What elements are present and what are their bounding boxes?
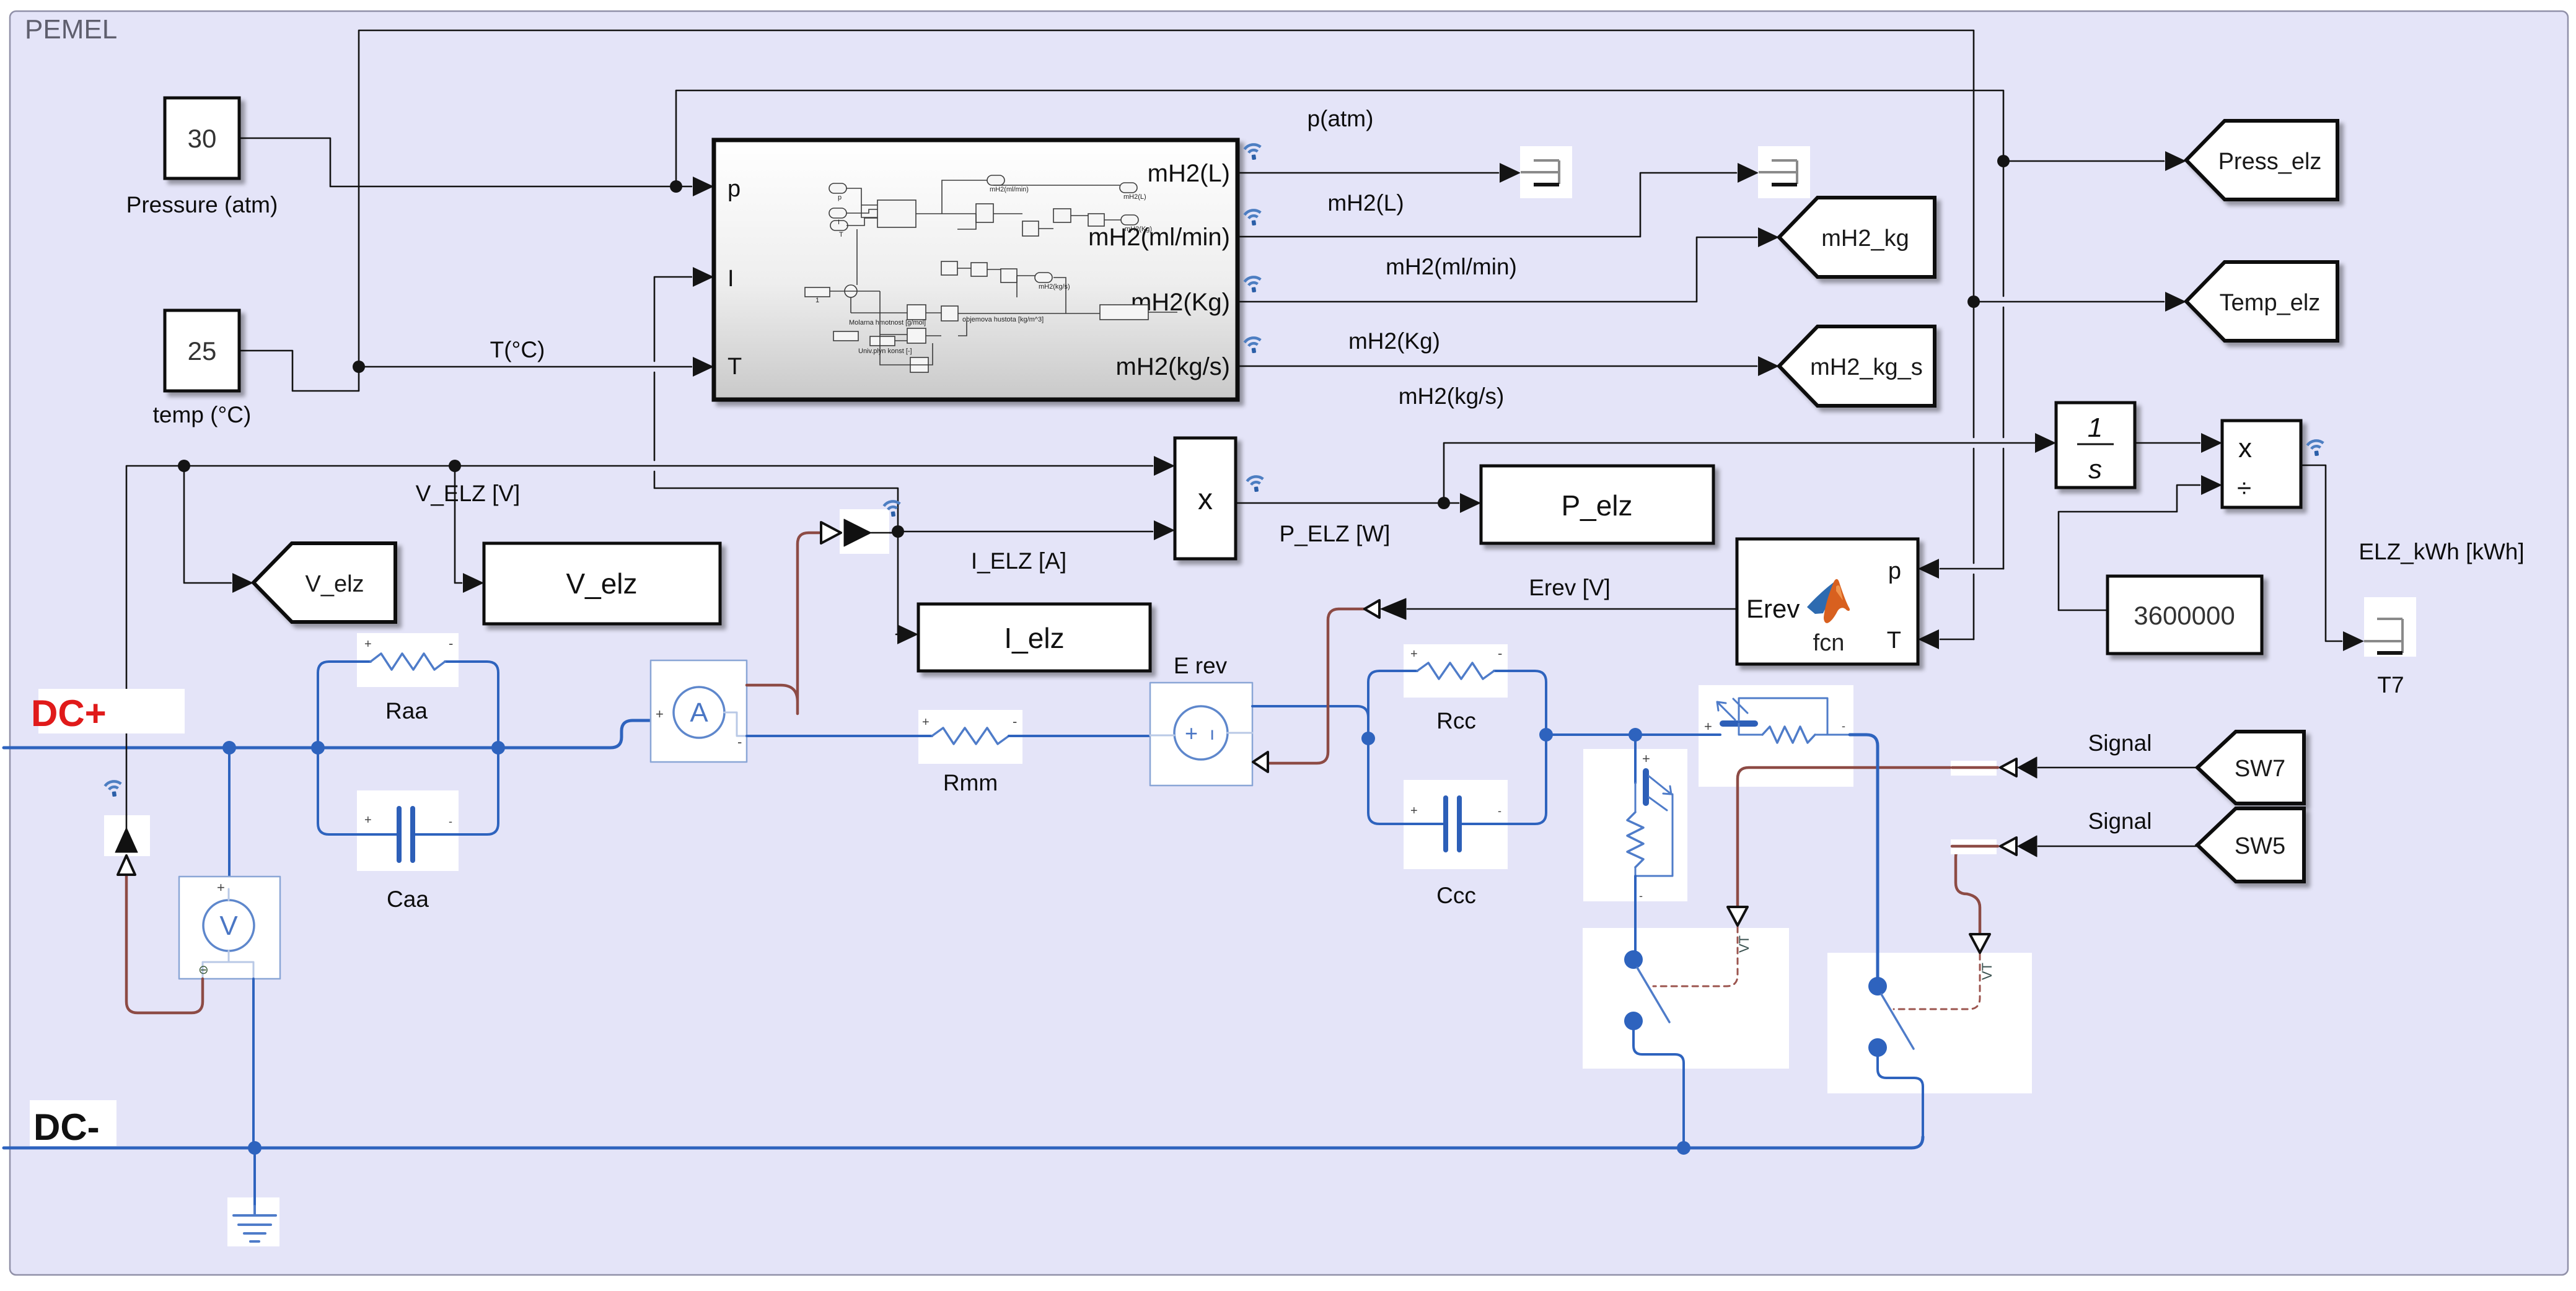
constant 30 (Pressure) [165,98,239,178]
switch SW2 [1868,977,1923,1137]
svg-text:ı: ı [1210,724,1215,744]
svg-text:+: + [364,813,372,827]
wire blue restroke over SW7 signal [1876,755,1879,782]
svg-text:mH2(Kg): mH2(Kg) [1348,328,1440,354]
port arrow I_elz display [897,624,918,644]
svg-text:-: - [1842,720,1845,732]
ground [234,1206,276,1241]
svg-text:-: - [1013,714,1017,729]
port arrow divide div [2201,475,2222,495]
constant 25 (temp) [165,310,239,391]
wire bus to voltmeter [228,748,231,877]
port arrow subsystem p [693,177,714,196]
svg-text:Molarna hmotnost [g/mol]: Molarna hmotnost [g/mol] [849,319,926,326]
svg-text:A: A [690,698,708,728]
svg-text:mH2(L): mH2(L) [1123,193,1146,201]
svg-text:25: 25 [188,336,217,365]
wifi logging badge [2307,440,2325,457]
wire I_ELZ to product [898,531,1153,533]
wire DC- bus [4,1137,1923,1148]
port arrow mH2_kg [1758,227,1779,247]
svg-text:x: x [2238,433,2252,463]
svg-text:mH2(kg/s): mH2(kg/s) [1116,353,1230,380]
terminator T7 [2364,597,2416,657]
port arrow integrator [2035,433,2056,453]
display block V_elz [484,543,720,624]
transistor GTO2 (with series resistor) [1627,735,1673,902]
wifi logging badge [1244,144,1262,161]
MATLAB function Erev fcn [1737,539,1918,664]
wire ELZ_kWh to T7 [2301,465,2342,641]
port arrow P_elz display [1460,493,1481,513]
svg-text:3600000: 3600000 [2134,601,2235,630]
port arrow divide x [2201,433,2222,453]
wire T to Temp_elz [1974,301,2164,303]
resistor Rcc [1417,663,1494,679]
wifi logging badge [1247,476,1265,493]
voltmeter block [179,877,280,979]
wire p to Erev fcn [1940,568,2003,570]
subsystem inner miniature [805,175,1177,372]
wire Erev converter to E rev source control [1267,609,1364,763]
svg-text:-: - [449,815,452,828]
port arrow Erev fcn T [1918,629,1939,649]
wire P_ELZ to integrator [1444,443,2036,503]
svg-text:V: V [219,911,238,941]
svg-text:x: x [1198,483,1213,516]
from tag SW5 [2197,808,2304,882]
port arrow Erev fcn p [1918,559,1939,579]
svg-text:SW5: SW5 [2235,833,2285,859]
node V_ELZ to display [449,460,461,472]
svg-text:mH2(ml/min): mH2(ml/min) [1386,254,1517,279]
goto tag Temp_elz [2186,262,2337,341]
svg-text:I: I [728,266,734,292]
port arrow subsystem T [693,357,714,377]
svg-text:Signal: Signal [2088,730,2152,756]
goto tag mH2_kg_s [1779,326,1935,406]
svg-text:Pressure (atm): Pressure (atm) [126,192,278,217]
svg-text:VT: VT [1736,935,1752,953]
svg-text:T7: T7 [2377,672,2404,698]
wire const25 to subsystem T [239,30,1974,639]
wire Ccc branch [1368,735,1546,824]
node p to Press_elz [1997,155,2010,167]
port VT open triangle (GTO1 gate) [1728,907,1747,926]
svg-text:mH2_kg_s: mH2_kg_s [1810,354,1923,380]
svg-text:E rev: E rev [1174,653,1228,678]
node DC+ / Raa-Caa left [311,741,325,755]
wire const 3600000 to divide [2059,485,2200,610]
node T branch [353,361,365,373]
resistor Rmm [932,728,1009,744]
wifi logging badge [1244,276,1262,294]
wire ammeter I measurement to converter [747,533,819,714]
svg-text:mH2(ml/min): mH2(ml/min) [1088,224,1230,251]
goto tag Press_elz [2186,121,2337,199]
svg-text:Ccc: Ccc [1436,883,1476,908]
wire P_ELZ [1236,502,1459,504]
resistor Raa [371,654,445,670]
svg-text:+: + [922,716,930,729]
svg-text:s: s [2088,454,2102,484]
svg-text:objemova hustota [kg/m^3]: objemova hustota [kg/m^3] [962,316,1044,323]
wire voltmeter V measurement to converter [126,876,203,1013]
svg-text:-: - [737,734,742,750]
svg-text:P_elz: P_elz [1561,489,1632,522]
svg-text:-: - [449,636,453,651]
svg-text:V_ELZ [V]: V_ELZ [V] [416,481,521,506]
wire Rmm to E rev [1009,735,1150,737]
wire V to V_elz display [455,466,462,583]
svg-text:+: + [1410,804,1418,818]
port arrow terminator1 [1500,163,1521,183]
wifi logging badge [105,781,123,798]
wire GTO1 to switch SW2 branch [1850,735,1878,986]
capacitor Caa [399,808,413,860]
goto tag V_elz [253,543,395,622]
node DC- label [30,1100,116,1146]
transistor GTO1 (with parallel resistor) [1717,698,1850,743]
switch SW1 [1624,950,1684,1148]
svg-text:T: T [1887,628,1901,654]
svg-text:SW7: SW7 [2235,756,2285,782]
converter Simulink-PS (SW5) [1951,836,2037,857]
port arrow terminator2 [1738,163,1759,183]
svg-text:I: I [838,219,840,226]
ammeter block [651,660,747,762]
port VT open triangle (SW2 gate) [1970,934,1990,953]
svg-text:+: + [217,880,225,895]
wire node to GTO switch [1635,733,1720,736]
divide block [2222,421,2301,507]
display block I_elz [918,604,1150,671]
svg-text:V_elz: V_elz [566,567,637,600]
svg-text:Rcc: Rcc [1436,708,1476,733]
port arrow V_elz display [463,573,484,593]
svg-text:1: 1 [815,297,819,304]
svg-text:Temp_elz: Temp_elz [2220,290,2321,316]
node DC+ / V-meter tap [222,741,236,755]
wire ammeter to Rmm [747,735,932,737]
wire mH2(ml/min) to terminator [1237,173,1736,237]
wire T to Erev fcn [1940,639,1974,641]
port arrow Press_elz [2165,151,2186,171]
wire V_ELZ line [126,466,1153,829]
svg-text:p(atm): p(atm) [1308,106,1374,131]
wire Rcc branch [1368,671,1546,738]
converter Simulink-PS (SW7) [1951,757,2037,778]
svg-text:I_elz: I_elz [1004,622,1064,654]
display block P_elz [1481,466,1713,543]
svg-text:+: + [1410,647,1418,661]
node DC+ label [38,689,185,733]
svg-text:fcn: fcn [1813,630,1845,656]
svg-text:DC-: DC- [33,1106,100,1148]
wire I to I_elz display [896,532,898,634]
MATLAB logo [1807,579,1850,623]
wire DC- to ground [253,1148,256,1206]
wire SW5 signal to SW2 gate [1956,846,1996,933]
wire Rcc-Ccc to transistor node [1546,733,1635,736]
wire GTO2 to switch SW1 [1634,876,1637,960]
svg-text:mH2(ml/min): mH2(ml/min) [990,186,1029,193]
wire mH2(L) to terminator [1237,172,1498,174]
node T to Temp_elz [1967,295,1980,308]
constant 3600000 [2108,576,2262,654]
wire V to V_elz goto [184,466,231,583]
goto tag mH2_kg [1779,198,1935,277]
integrator 1/s [2056,403,2135,488]
wire SW7 signal to GTO1 gate [1738,768,1996,906]
svg-text:temp (°C): temp (°C) [153,402,252,427]
port arrow product in2 [1154,520,1175,540]
port arrow V_elz goto [232,573,253,593]
wire converter to I junction [873,532,898,534]
wifi logging badge [1244,209,1262,227]
wire DC+ bus [4,720,651,748]
wire p to Press_elz [2003,160,2164,162]
svg-text:T(°C): T(°C) [490,337,545,362]
converter PS-Simulink (ammeter current) [821,509,898,554]
converter PS-Simulink (voltmeter) [104,815,150,875]
svg-text:Rmm: Rmm [943,770,998,795]
port arrow product in1 [1154,456,1175,476]
svg-text:ELZ_kWh [kWh]: ELZ_kWh [kWh] [2358,539,2524,564]
wire Erev output [1407,608,1737,610]
svg-text:-: - [1498,645,1502,661]
wire T to subsystem T port [359,366,692,368]
svg-text:T: T [839,231,843,239]
svg-text:PEMEL: PEMEL [25,14,117,45]
node I_ELZ junction [892,525,904,538]
wire Caa branch [318,748,498,834]
wire SW5 [2038,846,2197,847]
wire Raa branch [318,662,498,748]
terminator (mH2 ml/min) [1758,146,1810,198]
wire integrator to divide [2135,442,2200,444]
wire voltmeter to DC- bus [252,979,255,1148]
from tag SW7 [2197,732,2304,803]
svg-text:Caa: Caa [387,886,429,912]
node V_ELZ to goto [178,460,190,472]
wifi logging badge [1244,337,1262,354]
svg-text:+: + [1704,719,1712,734]
svg-text:Raa: Raa [385,698,428,724]
port arrow Temp_elz [2165,292,2186,312]
svg-text:+: + [1642,751,1650,766]
node p branch [670,180,682,193]
voltage source E rev [1150,683,1252,786]
wire I measurement riser [654,277,898,532]
svg-text:p: p [728,176,741,202]
svg-text:P_ELZ [W]: P_ELZ [W] [1280,521,1391,546]
wire mH2(kg/s) to mH2_kg_s tag [1237,365,1757,367]
wire SW7 [2038,767,2197,769]
svg-text:mH2(kg/s): mH2(kg/s) [1039,283,1070,291]
wire E rev to Rcc-Ccc [1252,706,1368,738]
terminator (mH2 L) [1520,146,1572,198]
node Raa-Caa right [491,741,505,755]
svg-text:Press_elz: Press_elz [2218,149,2322,175]
svg-text:1: 1 [2088,413,2103,443]
svg-text:p: p [1888,558,1901,584]
svg-text:⊖: ⊖ [198,963,209,977]
svg-text:Signal: Signal [2088,808,2152,834]
port arrow T7 [2343,631,2364,651]
svg-text:VT: VT [1979,963,1995,980]
svg-text:mH2(L): mH2(L) [1148,160,1230,187]
svg-text:-: - [1639,890,1643,902]
port control open triangle (E rev) [1253,752,1268,772]
wifi logging badge [884,501,902,518]
node P_ELZ branch [1438,497,1450,509]
svg-text:T: T [728,354,742,380]
product block [1175,438,1236,559]
svg-text:Univ.plyn konst [-]: Univ.plyn konst [-] [858,348,912,355]
svg-text:Erev [V]: Erev [V] [1529,575,1611,600]
svg-text:+: + [1185,720,1198,746]
converter Simulink-PS (Erev) [1365,598,1406,619]
svg-text:mH2(Kg): mH2(Kg) [1125,225,1152,233]
subsystem H2 production [714,140,1237,400]
wire const30 to subsystem p [239,138,692,186]
svg-text:mH2_kg: mH2_kg [1821,225,1909,252]
wire p(atm) riser [676,90,2003,569]
wire mH2(Kg) to mH2_kg tag [1237,237,1757,302]
svg-text:+: + [656,706,664,722]
svg-text:30: 30 [188,124,217,153]
svg-text:I_ELZ [A]: I_ELZ [A] [971,548,1066,574]
wire dashed gate line SW2 [1894,954,1980,1009]
svg-text:p: p [838,194,842,201]
capacitor Ccc [1446,798,1459,850]
svg-text:mH2(L): mH2(L) [1327,190,1404,216]
wire dashed gate line SW1 [1653,927,1738,986]
svg-text:DC+: DC+ [31,693,107,734]
svg-text:mH2(kg/s): mH2(kg/s) [1399,383,1505,409]
svg-text:+: + [364,637,372,651]
port arrow mH2_kg_s [1758,356,1779,376]
svg-text:Erev: Erev [1746,594,1800,623]
svg-text:-: - [1498,805,1501,817]
svg-text:÷: ÷ [2237,473,2251,502]
svg-text:V_elz: V_elz [305,571,364,597]
port arrow subsystem I [693,267,714,287]
